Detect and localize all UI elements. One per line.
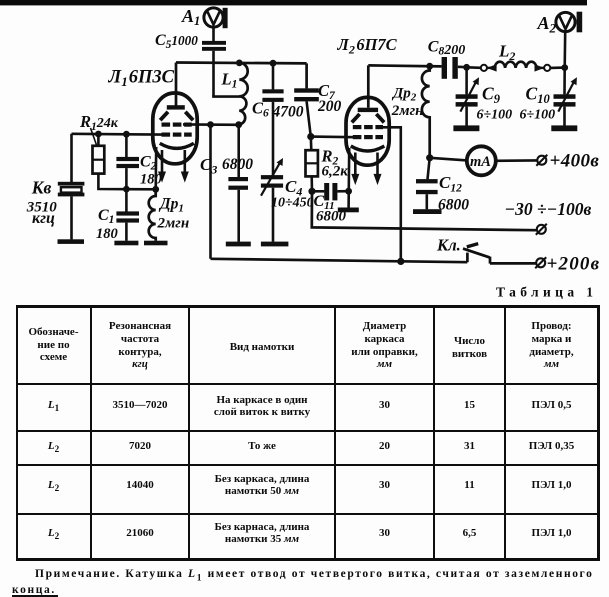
node screen2 on rail [397, 258, 404, 265]
tube Л2 screen grid [353, 125, 383, 129]
tube Л2 plate [358, 108, 378, 112]
meter mA [467, 146, 496, 175]
wire tube2 screen to +200 rail [380, 127, 401, 261]
top border bar [0, 0, 587, 5]
resistor R2 [306, 150, 318, 176]
tube Л1 plate [167, 105, 185, 109]
tube Л1 cathode [160, 143, 194, 148]
wire C11 to cathode [337, 190, 348, 193]
node C2 top [123, 131, 130, 138]
node Др2 bottom [426, 154, 433, 161]
wire C10 top [563, 68, 566, 95]
wire C4 to ground [272, 188, 275, 242]
wire node to L2 connector [467, 66, 481, 69]
node R1 top [95, 131, 102, 138]
node C6 top [270, 60, 277, 67]
arrow to right connector [537, 67, 544, 69]
capacitor C5 [202, 41, 226, 45]
inductor L1 (tapped coil) [239, 63, 247, 125]
node cathode 2 [345, 188, 352, 195]
terminal +400в [536, 155, 547, 166]
capacitor C3 [228, 177, 248, 181]
tube Л2 cathode lead [347, 148, 350, 208]
tube Л2 beam plates [352, 114, 360, 122]
tube Л1 cathode lead [154, 147, 157, 189]
wire A1 to C5 [212, 27, 215, 41]
connector circle left [481, 65, 487, 71]
node screen drop [207, 121, 214, 128]
ground under C10 [551, 125, 577, 131]
wire tap to L1 [212, 95, 239, 98]
ground under C1 [114, 241, 138, 246]
wire R2 bottom [310, 176, 313, 191]
ground under C4 [261, 242, 289, 247]
wire C10 to ground [563, 107, 566, 126]
wire C6 bottom to C4 top [272, 102, 275, 175]
wire Др2 node to meter [430, 158, 468, 161]
wire C1 to ground [125, 223, 128, 241]
row 1 [17, 399, 90, 414]
tube Л1 screen grid (dashed) [162, 123, 192, 127]
variable capacitor C4 [261, 175, 283, 179]
table borders [16, 305, 599, 308]
node R2/C11/bias [308, 188, 315, 195]
lamp-antenna A2 symbol [556, 12, 582, 33]
node C9/L2 [463, 64, 470, 71]
wire C12 to ground [425, 194, 428, 209]
wire R2 top [309, 137, 312, 151]
variable capacitor C9 [456, 94, 478, 99]
wire C9 top [465, 67, 468, 94]
inductor L2 [495, 62, 537, 68]
capacitor C1 [116, 211, 139, 215]
wire C12 top [428, 158, 430, 179]
choke Др1 [149, 189, 156, 241]
wire C2 bottom [125, 168, 128, 189]
tube Л2 heater arrows [352, 153, 381, 184]
wire A2 down [563, 32, 566, 68]
wire rail corner to C7 [305, 63, 308, 88]
wire R1 top [97, 134, 100, 146]
tube Л1 beam plates [160, 112, 168, 120]
top anode rail [176, 61, 307, 65]
+200V rail [211, 259, 468, 262]
wire C7 bottom to grid node [307, 101, 311, 136]
connector circle right [544, 65, 550, 71]
ground under crystal [58, 239, 85, 244]
bias rail -30..-100 [312, 191, 536, 230]
wire grid to crystal [70, 134, 73, 182]
wire right connector to A2 node [550, 66, 564, 69]
ground under C9 [453, 125, 479, 131]
row 3 [17, 479, 90, 494]
capacitor C11 [324, 183, 329, 200]
node grid 2 [307, 133, 314, 140]
note [16, 568, 599, 584]
lamp-antenna A1 symbol [204, 8, 228, 28]
wire tube1 control grid (left) [72, 133, 163, 136]
wire C8 to node [458, 65, 467, 68]
ground under Др1 [144, 241, 168, 246]
wire C3 top [237, 125, 240, 177]
capacitor C12 [416, 179, 438, 183]
terminal +200в [535, 257, 546, 268]
node L1 bottom [235, 121, 242, 128]
ground under cathode 2 [338, 208, 359, 213]
wire C6 top [272, 63, 275, 89]
tube Л2 control grid [353, 135, 383, 139]
node A2/C10 [561, 64, 568, 71]
wire screen drop to +200V rail [209, 125, 212, 259]
ground under C12 [413, 209, 442, 214]
leader R1 [91, 128, 97, 145]
tube Л1 envelope [153, 93, 197, 164]
wire meter to +400 terminal [496, 159, 537, 162]
wire tube1 screen to L1 bottom [183, 123, 239, 126]
node cathode/Др1 [152, 186, 159, 193]
capacitor C8 [442, 57, 447, 79]
wire C2 top [125, 134, 128, 157]
resistor R1 [93, 146, 105, 174]
wire crystal to ground [70, 196, 73, 239]
variable capacitor C10 [554, 94, 576, 99]
row 4 [17, 527, 90, 542]
row 2 [17, 440, 90, 455]
ground under C3 [226, 242, 251, 247]
capacitor C6 [262, 89, 283, 93]
tube Л1 control grid (dashed) [162, 133, 192, 137]
quartz crystal Кв [58, 182, 85, 197]
capacitor C7 [294, 88, 319, 92]
tube Л2 envelope [346, 97, 389, 165]
arrow to left connector [487, 67, 494, 69]
node C1/C2 [123, 186, 130, 193]
wire C9 to ground [465, 107, 468, 126]
wire R1 bottom to node [98, 174, 155, 190]
wire grid node to tube 2 [311, 135, 355, 138]
key switch Кл [463, 244, 536, 264]
capacitor C2 [116, 157, 139, 161]
tube Л1 heater arrows [159, 150, 188, 181]
wire tube2 plate top [368, 65, 441, 66]
tube Л2 cathode [351, 146, 385, 151]
tube Л2 plate lead [367, 65, 370, 107]
wire C5 down to L1 tap [212, 51, 215, 97]
node Др2 top [426, 63, 433, 70]
node L1 top [236, 60, 243, 67]
wire C1 top [125, 189, 128, 211]
wire node to C11 [312, 190, 324, 193]
terminal -30 [536, 224, 547, 235]
wire C3 to ground [237, 190, 240, 242]
header row [17, 326, 90, 364]
wire plate lead tube 1 [175, 63, 178, 106]
choke Др2 [422, 66, 430, 158]
